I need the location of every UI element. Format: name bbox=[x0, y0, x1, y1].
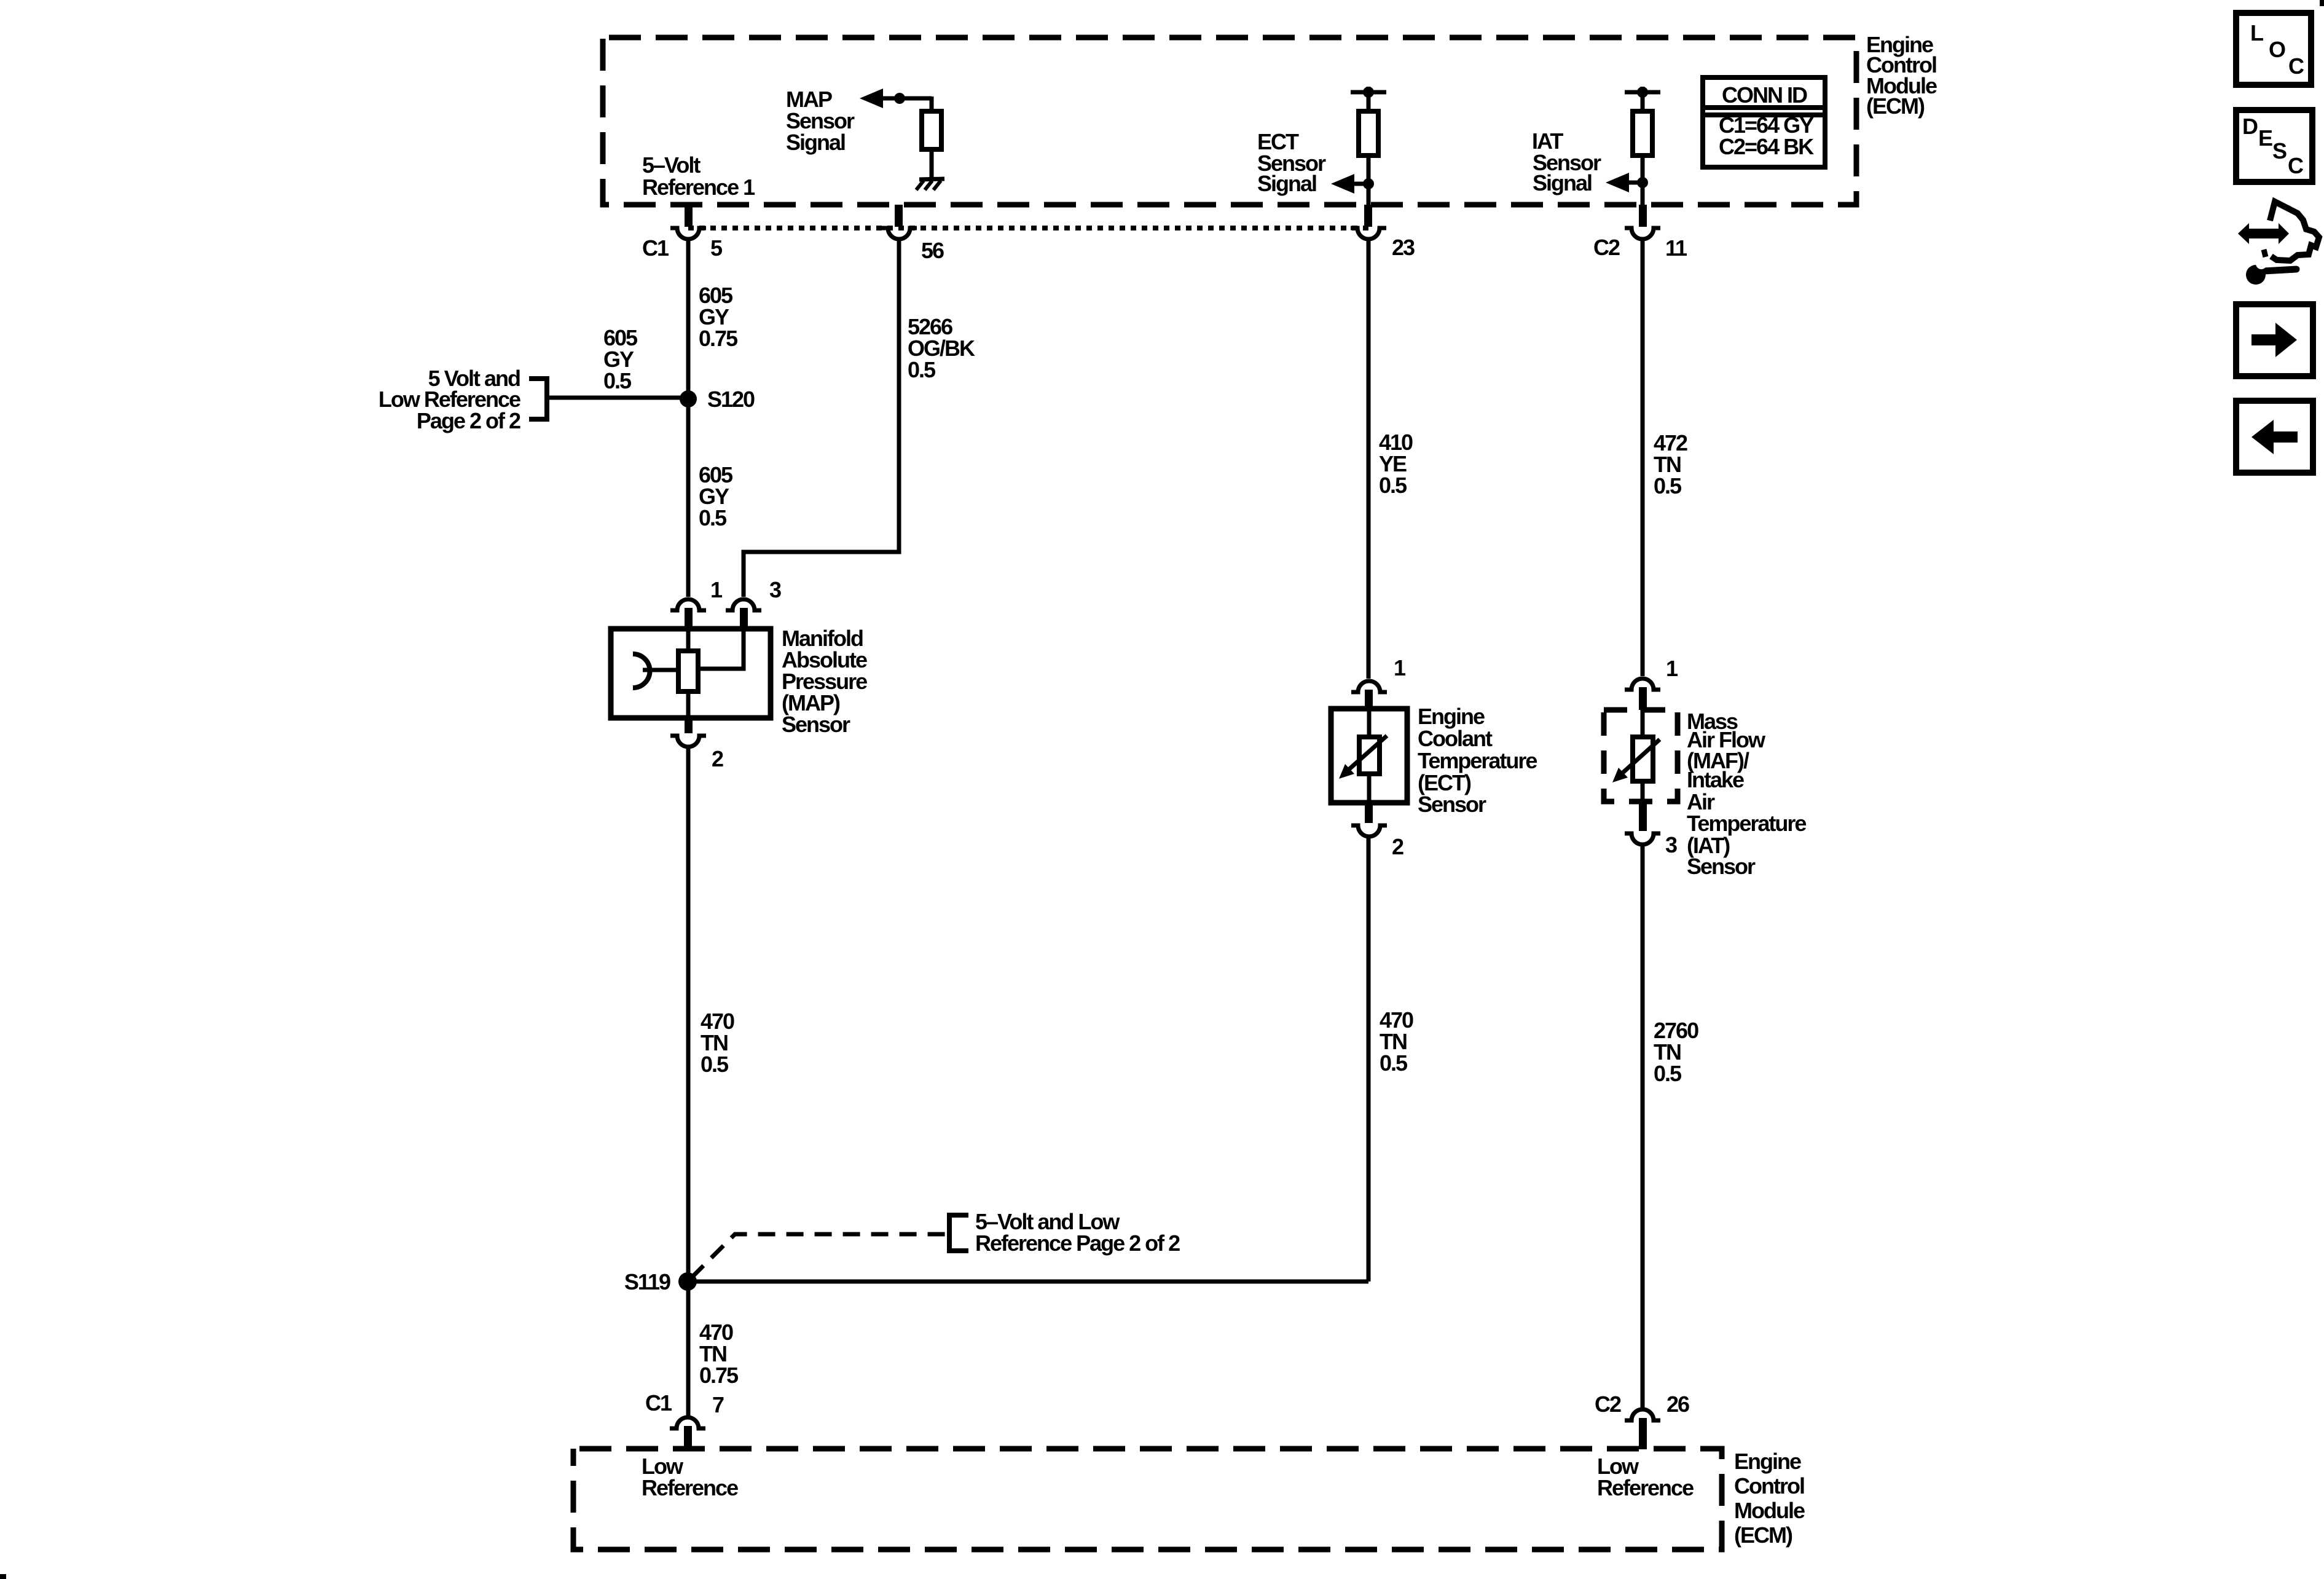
svg-text:7: 7 bbox=[712, 1392, 724, 1417]
ECT sensor signal arrow bbox=[1331, 174, 1374, 194]
svg-text:Signal: Signal bbox=[1533, 170, 1592, 195]
svg-text:L: L bbox=[2250, 20, 2263, 45]
svg-text:11: 11 bbox=[1665, 235, 1687, 261]
label Low Reference (left) bbox=[642, 1454, 738, 1500]
svg-text:Reference: Reference bbox=[1597, 1475, 1694, 1500]
svg-text:Signal: Signal bbox=[1257, 171, 1316, 196]
svg-text:1: 1 bbox=[710, 577, 723, 602]
label 410 YE 0.5 bbox=[1379, 430, 1413, 498]
svg-text:D: D bbox=[2242, 114, 2258, 139]
wiring repair icon (dog head, double arrow, wrench) bbox=[2238, 202, 2319, 285]
svg-text:CONN ID: CONN ID bbox=[1722, 82, 1807, 108]
svg-text:0.5: 0.5 bbox=[1380, 1050, 1408, 1076]
wire element to box bottom bbox=[686, 691, 691, 718]
label 470 TN 0.75 bbox=[699, 1320, 739, 1388]
MAF thermistor arrow bbox=[1612, 739, 1660, 782]
svg-text:S: S bbox=[2272, 138, 2287, 163]
wire 470 TN 0.5 (MAP pin 2 to S119) bbox=[686, 748, 691, 1416]
ECM label (bottom right) bbox=[1734, 1449, 1805, 1548]
svg-text:3: 3 bbox=[769, 577, 781, 602]
MAP sensor pin 3 connector bbox=[726, 599, 761, 629]
label 605 GY 0.5 (branch) bbox=[603, 325, 638, 393]
svg-text:3: 3 bbox=[1665, 832, 1677, 857]
svg-text:S120: S120 bbox=[707, 387, 755, 412]
wire element to pin 3 bbox=[698, 629, 744, 669]
svg-text:C1: C1 bbox=[642, 235, 669, 261]
svg-text:1: 1 bbox=[1666, 656, 1678, 681]
svg-text:2: 2 bbox=[1392, 834, 1403, 859]
label 605 GY 0.75 bbox=[699, 283, 738, 351]
svg-text:0.5: 0.5 bbox=[1379, 473, 1407, 498]
MAP pressure port arc bbox=[633, 654, 650, 688]
CONN ID table box bbox=[1703, 77, 1825, 167]
label Engine Coolant Temperature (ECT) Sensor bbox=[1418, 704, 1537, 817]
bracket (5-Volt and Low Reference page ref) bbox=[949, 1215, 968, 1251]
svg-text:23: 23 bbox=[1392, 235, 1415, 260]
svg-text:0.5: 0.5 bbox=[699, 505, 727, 530]
label 605 GY 0.5 (below S120) bbox=[699, 462, 733, 530]
wire: resistor to ECT signal node bbox=[1367, 156, 1371, 205]
MAF thermistor body bbox=[1633, 737, 1653, 781]
svg-text:Reference 1: Reference 1 bbox=[642, 175, 755, 200]
5-Volt and Low Reference Page 2 of 2 label bbox=[975, 1209, 1180, 1256]
next page nav button (right arrow) bbox=[2236, 304, 2313, 376]
svg-text:(ECM): (ECM) bbox=[1734, 1522, 1792, 1548]
ECM module dashed box (top) bbox=[603, 37, 1856, 205]
connector dotted line C1/C2 bbox=[688, 226, 1368, 230]
svg-text:C: C bbox=[2288, 53, 2304, 79]
wire: resistor to ground bbox=[930, 149, 934, 179]
svg-text:Reference: Reference bbox=[642, 1475, 738, 1500]
svg-text:0.5: 0.5 bbox=[1654, 473, 1682, 498]
MAF/IAT sensor dashed box bbox=[1604, 710, 1678, 801]
svg-text:Engine: Engine bbox=[1418, 704, 1485, 729]
MAP Sensor Signal label bbox=[786, 87, 855, 155]
wire 410 YE 0.5 (pin 23 to ECT pin 1) bbox=[1367, 240, 1371, 679]
ECT thermistor vertical wire bbox=[1367, 709, 1372, 803]
svg-text:C1: C1 bbox=[645, 1390, 672, 1416]
wire 2760 TN 0.5 (MAF pin 3 to C2-26) bbox=[1641, 846, 1645, 1408]
svg-text:Module: Module bbox=[1734, 1498, 1805, 1523]
label 470 TN 0.5 (ECT) bbox=[1380, 1007, 1413, 1076]
svg-text:S119: S119 bbox=[624, 1269, 670, 1294]
svg-text:1: 1 bbox=[1394, 655, 1406, 680]
pin C2-26 connector bbox=[1625, 1409, 1660, 1449]
MAP sensing element (resistor) bbox=[678, 651, 698, 691]
svg-text:56: 56 bbox=[921, 238, 944, 263]
wire: resistor to IAT signal node bbox=[1641, 156, 1645, 205]
pin 56 bbox=[881, 205, 917, 239]
MAP sensor box bbox=[611, 629, 771, 718]
svg-text:5–Volt: 5–Volt bbox=[642, 152, 701, 178]
svg-text:C2=64 BK: C2=64 BK bbox=[1719, 134, 1814, 159]
label 472 TN 0.5 bbox=[1654, 430, 1687, 498]
ECT sensor pin 2 connector bbox=[1351, 803, 1387, 837]
wire 472 TN 0.5 (pin 11 to MAF pin 1) bbox=[1641, 240, 1645, 676]
5 Volt and Low Reference Page 2 of 2 label bbox=[379, 366, 520, 433]
wire 605 GY 0.75 (pin 5 to S120 to MAP pin 1) bbox=[686, 240, 691, 597]
wire 470 TN 0.5 (ECT pin 2 down to S119 run) bbox=[1367, 838, 1371, 1282]
svg-text:Reference Page 2 of 2: Reference Page 2 of 2 bbox=[975, 1231, 1180, 1256]
label Manifold Absolute Pressure (MAP) Sensor bbox=[782, 626, 867, 737]
pin 23 bbox=[1351, 205, 1386, 239]
label 470 TN 0.5 (left) bbox=[701, 1009, 734, 1077]
ECT sensor pin 1 connector bbox=[1351, 681, 1387, 709]
ECM label (top right) bbox=[1866, 32, 1937, 119]
IAT pull-up supply bar bbox=[1625, 87, 1660, 111]
bracket (5 Volt and Low Reference page ref) bbox=[529, 379, 547, 419]
LOC nav button bbox=[2236, 13, 2311, 85]
junction S120 bbox=[680, 390, 697, 408]
svg-text:0.5: 0.5 bbox=[1654, 1061, 1682, 1086]
ECT thermistor body bbox=[1359, 737, 1380, 774]
wire pin1 into element bbox=[686, 629, 691, 651]
IAT sensor signal arrow bbox=[1606, 173, 1648, 192]
label 5266 OG/BK 0.5 bbox=[908, 314, 975, 382]
svg-text:Signal: Signal bbox=[786, 130, 845, 155]
svg-text:O: O bbox=[2269, 37, 2285, 62]
svg-text:E: E bbox=[2258, 125, 2272, 151]
svg-text:0.75: 0.75 bbox=[699, 1363, 739, 1388]
5-Volt Reference 1 label bbox=[642, 152, 755, 200]
ECT thermistor arrow bbox=[1339, 736, 1387, 779]
svg-text:0.5: 0.5 bbox=[701, 1052, 729, 1077]
svg-text:Temperature: Temperature bbox=[1418, 748, 1537, 773]
svg-text:26: 26 bbox=[1666, 1392, 1689, 1417]
DESC nav button bbox=[2236, 110, 2312, 182]
svg-text:Sensor: Sensor bbox=[782, 712, 850, 737]
svg-text:C2: C2 bbox=[1595, 1392, 1621, 1417]
pin C1-7 connector bbox=[670, 1417, 705, 1449]
svg-text:5: 5 bbox=[710, 235, 723, 261]
wire port to element bbox=[643, 668, 678, 672]
previous page nav button (left arrow) bbox=[2236, 401, 2313, 473]
MAP sensor signal arrow (inside ECM) bbox=[860, 89, 932, 108]
ECT Sensor Signal label bbox=[1257, 129, 1326, 196]
resistor (IAT pull-up) bbox=[1633, 111, 1652, 156]
svg-text:Page 2 of 2: Page 2 of 2 bbox=[417, 408, 520, 433]
svg-text:Temperature: Temperature bbox=[1687, 811, 1806, 836]
svg-text:2: 2 bbox=[712, 746, 723, 771]
label Low Reference (right) bbox=[1597, 1454, 1694, 1500]
ECM module dashed box (bottom) bbox=[573, 1449, 1722, 1549]
wire: dot to pull-down resistor (MAP) bbox=[930, 96, 934, 111]
MAF/IAT sensor pin 1 connector bbox=[1625, 679, 1660, 710]
pin C1-5 bbox=[670, 205, 706, 239]
svg-text:(ECM): (ECM) bbox=[1866, 93, 1925, 119]
svg-text:Intake: Intake bbox=[1687, 767, 1744, 792]
junction S119 bbox=[678, 1272, 697, 1291]
svg-text:Sensor: Sensor bbox=[1687, 854, 1756, 879]
svg-text:0.5: 0.5 bbox=[603, 368, 632, 393]
MAF sensor pin 3 connector bbox=[1625, 801, 1660, 845]
dashed branch wire from S119 to page reference bbox=[691, 1234, 949, 1278]
MAP sensor pin 1 connector bbox=[670, 599, 706, 629]
IAT Sensor Signal label bbox=[1532, 128, 1601, 195]
ground (chassis, inside ECM) bbox=[916, 179, 944, 190]
label Mass Air Flow (MAF)/Intake Air Temperature (IAT) Sensor bbox=[1687, 709, 1806, 879]
svg-text:Sensor: Sensor bbox=[1418, 792, 1486, 817]
wire: bracket to S120 bbox=[547, 396, 688, 400]
svg-text:0.75: 0.75 bbox=[699, 326, 738, 351]
resistor (MAP signal pull-down) bbox=[922, 111, 941, 149]
resistor (ECT pull-up) bbox=[1359, 111, 1378, 156]
pin C2-11 bbox=[1625, 205, 1660, 239]
ECT pull-up supply bar bbox=[1351, 87, 1386, 111]
svg-text:0.5: 0.5 bbox=[908, 357, 936, 382]
ECT sensor box bbox=[1331, 709, 1407, 803]
wire: S119 to ECT column (low reference) bbox=[688, 1280, 1368, 1284]
svg-text:C2: C2 bbox=[1593, 235, 1620, 260]
svg-text:C: C bbox=[2288, 153, 2304, 178]
label 2760 TN 0.5 bbox=[1654, 1018, 1698, 1086]
svg-text:Control: Control bbox=[1734, 1473, 1804, 1498]
MAF thermistor vertical wire bbox=[1641, 710, 1645, 801]
wire 5266 OG/BK 0.5 (pin 56 to MAP pin 3) bbox=[744, 240, 899, 597]
svg-text:Coolant: Coolant bbox=[1418, 726, 1493, 751]
MAP sensor pin 2 connector bbox=[670, 718, 706, 747]
svg-text:Engine: Engine bbox=[1734, 1449, 1801, 1474]
